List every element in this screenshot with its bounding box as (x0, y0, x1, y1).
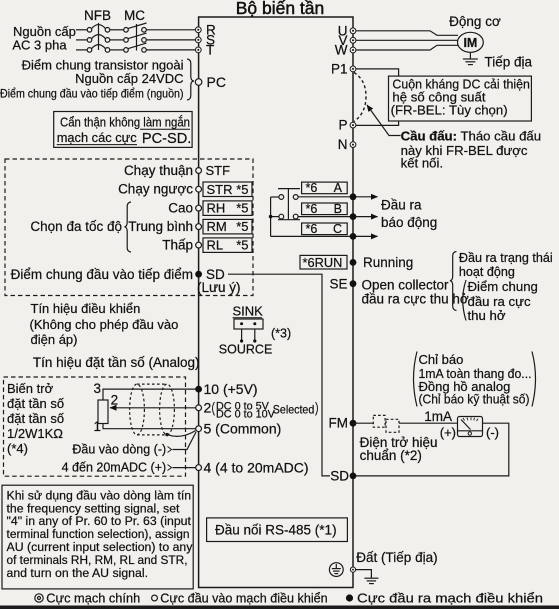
node B (350, 213, 357, 220)
legend: control output terminal (346, 594, 353, 601)
svg-text:PC: PC (207, 74, 226, 90)
jumper leader arrow (367, 105, 401, 136)
svg-text:Tín hiệu đặt tần số (Analog): Tín hiệu đặt tần số (Analog) (33, 355, 200, 370)
svg-text:1mA: 1mA (424, 409, 452, 424)
terminal W (350, 47, 356, 53)
svg-text:SINK: SINK (233, 304, 264, 319)
svg-text:Trung bình: Trung bình (128, 219, 193, 234)
svg-text:Điểm chung đầu vào tiếp điểm (: Điểm chung đầu vào tiếp điểm (nguồn) (0, 86, 184, 100)
svg-text:kết nối.: kết nối. (401, 156, 444, 171)
svg-text:SE: SE (329, 277, 347, 292)
relay changeover contact (271, 189, 300, 237)
svg-text:4 đến 20mADC (+): 4 đến 20mADC (+) (62, 461, 167, 475)
node RUN (350, 259, 357, 266)
box RS-485 (207, 518, 348, 542)
svg-text:the frequency setting signal,: the frequency setting signal, set (7, 501, 181, 515)
terminal PC (195, 79, 202, 86)
svg-text:Cực đầu vào mạch điều khiển: Cực đầu vào mạch điều khiển (160, 592, 327, 606)
svg-text:mạch các cực: mạch các cực (57, 130, 137, 145)
calibration resistor (dashed) (373, 415, 385, 427)
wire pot wiper from terminal 2 (110, 407, 196, 409)
svg-text:*6: *6 (306, 202, 318, 216)
legend: main circuit terminal (35, 594, 43, 602)
terminal RL (196, 242, 202, 248)
svg-text:B: B (334, 202, 342, 216)
wire phase R (76, 29, 196, 31)
svg-text:(Lưu ý): (Lưu ý) (197, 280, 241, 295)
ground under motor (463, 52, 478, 64)
svg-text:*5: *5 (236, 201, 248, 216)
svg-text:*6: *6 (306, 181, 318, 195)
inverter enclosure outline (199, 17, 353, 588)
svg-text:Tín hiệu điều khiển: Tín hiệu điều khiển (31, 301, 141, 316)
svg-text:FM: FM (329, 416, 349, 431)
svg-text:T: T (206, 42, 214, 57)
svg-text:STF: STF (206, 163, 231, 178)
wire contact to A (298, 196, 353, 198)
svg-text:*5: *5 (236, 182, 248, 197)
svg-text:Động cơ: Động cơ (449, 14, 501, 29)
terminal B box (302, 203, 348, 215)
svg-text:(FR-BEL: Tùy chọn): (FR-BEL: Tùy chọn) (391, 103, 508, 118)
svg-text:báo động: báo động (381, 215, 437, 230)
terminal ground on rail (350, 567, 355, 572)
svg-text:đầu ra cực: đầu ra cực (468, 294, 531, 309)
svg-text:N: N (338, 137, 348, 152)
svg-text:Bộ biến tần: Bộ biến tần (236, 0, 325, 18)
svg-text:SD: SD (330, 469, 349, 484)
svg-text:STR: STR (207, 182, 233, 197)
wire contact to B (298, 216, 353, 218)
box DC reactor FR-BEL (389, 76, 532, 121)
terminal U (350, 28, 356, 34)
svg-text:*6: *6 (306, 222, 318, 236)
svg-text:Cẩn thận không làm ngắn: Cẩn thận không làm ngắn (60, 115, 190, 130)
svg-text:thu hở: thu hở (468, 308, 506, 323)
ground (364, 578, 378, 583)
paren open-collector common (463, 280, 466, 321)
shielded cable (130, 384, 175, 435)
svg-text:IM: IM (463, 36, 477, 50)
svg-text:Chạy thuận: Chạy thuận (124, 163, 193, 178)
terminal N (350, 142, 356, 148)
svg-text:Đầu ra: Đầu ra (381, 198, 422, 213)
svg-text:MC: MC (124, 8, 145, 23)
terminal STR (196, 186, 202, 192)
wire common to C (271, 235, 353, 237)
svg-text:*6RUN: *6RUN (303, 255, 343, 270)
terminal R (195, 27, 201, 33)
svg-text:Đầu vào dòng (-): Đầu vào dòng (-) (72, 443, 166, 457)
caution box PC-SD (54, 112, 192, 148)
svg-text:Chọn đa tốc độ: Chọn đa tốc độ (30, 219, 122, 234)
note box: English text (2, 485, 193, 589)
arrow A output (356, 196, 378, 198)
svg-text:Chạy ngược: Chạy ngược (118, 182, 193, 197)
svg-text:2: 2 (204, 400, 212, 416)
wire U to motor (356, 31, 458, 36)
svg-text:Biến trở: Biến trở (7, 381, 54, 396)
contactor MC (124, 23, 147, 52)
legend: control input terminal (152, 595, 158, 601)
bottom scan bar (0, 606, 559, 609)
svg-text:Cực mạch chính: Cực mạch chính (46, 591, 140, 606)
wire SD to right rail (228, 274, 330, 476)
svg-text:terminal function selection),: terminal function selection), assign (7, 527, 190, 541)
wire V to motor (356, 39, 458, 41)
terminal S (195, 37, 201, 43)
svg-text:Thấp: Thấp (162, 238, 193, 253)
svg-text:2: 2 (111, 393, 119, 408)
svg-text:P1: P1 (331, 61, 348, 76)
svg-text:Running: Running (363, 255, 413, 270)
shield drain wire (165, 433, 168, 436)
terminal P (350, 122, 356, 128)
wire P1 to P (via DC reactor path) (356, 69, 399, 126)
terminal RM (196, 224, 202, 230)
svg-text:and turn on the AU signal.: and turn on the AU signal. (7, 566, 149, 580)
terminal STF (196, 168, 202, 174)
svg-text:(*3): (*3) (271, 327, 291, 341)
svg-text:Chỉ báo: Chỉ báo (419, 352, 464, 367)
svg-text:Đầu nối RS-485 (*1): Đầu nối RS-485 (*1) (215, 522, 337, 537)
wire phase T (76, 49, 196, 51)
svg-text:Đất (Tiếp địa): Đất (Tiếp địa) (356, 550, 437, 565)
callout indicator meter (414, 352, 418, 407)
junction (269, 215, 273, 219)
svg-text:Điểm chung: Điểm chung (468, 279, 538, 294)
svg-text:RM: RM (207, 219, 227, 234)
svg-text:4 (4 to 20mADC): 4 (4 to 20mADC) (204, 459, 309, 475)
terminal 10 (195, 386, 202, 393)
svg-text:P: P (338, 118, 347, 133)
svg-text:10 (+5V): 10 (+5V) (204, 381, 258, 397)
terminal V (350, 37, 356, 43)
svg-text:Khi sử dụng đầu vào dòng làm t: Khi sử dụng đầu vào dòng làm tín (7, 488, 192, 502)
svg-text:of terminals RH, RM, RL and ST: of terminals RH, RM, RL and STR, (7, 553, 188, 567)
svg-text:(+): (+) (440, 425, 456, 440)
svg-text:Điểm chung đầu vào tiếp điểm: Điểm chung đầu vào tiếp điểm (11, 267, 193, 282)
brace to PC (187, 59, 194, 100)
terminal SD (dot) (195, 271, 202, 278)
arrow C output (356, 235, 378, 237)
svg-text:NFB: NFB (84, 8, 111, 23)
svg-text:1: 1 (94, 419, 102, 434)
svg-text:A: A (334, 181, 343, 195)
jumper (dashed) P1-P (354, 73, 366, 122)
svg-text:*5: *5 (236, 219, 248, 234)
terminal RH (196, 205, 202, 211)
svg-text:*5: *5 (236, 238, 248, 253)
brace status outputs (450, 252, 457, 311)
wire pot pin3 to terminal 10 (103, 389, 195, 400)
dashed box: analog input (4, 377, 186, 476)
svg-text:W: W (335, 43, 348, 58)
svg-text:chuẩn (*2): chuẩn (*2) (360, 448, 422, 463)
svg-text:đặt tần số: đặt tần số (7, 411, 64, 426)
terminal A box (302, 182, 348, 194)
svg-text:(Không cho phép đầu vào: (Không cho phép đầu vào (30, 317, 179, 332)
node C (350, 233, 357, 240)
terminal P1 (350, 66, 356, 72)
svg-text:3: 3 (94, 381, 102, 396)
svg-text:5 (Common): 5 (Common) (204, 421, 282, 437)
svg-text:Đầu ra trạng thái: Đầu ra trạng thái (459, 251, 553, 265)
wire FM to meter (353, 422, 458, 424)
svg-text:PC-SD.: PC-SD. (142, 131, 191, 147)
wire meter return to SD (356, 423, 509, 476)
svg-text:Cực đầu ra mạch điều khiển: Cực đầu ra mạch điều khiển (357, 591, 543, 606)
svg-text:(*4): (*4) (7, 441, 28, 456)
svg-text:Selected: Selected (273, 402, 315, 416)
svg-text:Cao: Cao (168, 201, 193, 216)
svg-text:1/2W1KΩ: 1/2W1KΩ (7, 426, 63, 441)
svg-text:(Chỉ báo kỹ thuật số): (Chỉ báo kỹ thuật số) (419, 392, 530, 407)
dashed box: contact input signals (5, 159, 253, 296)
terminal RUN box (300, 255, 347, 269)
PE symbol (329, 563, 343, 577)
svg-text:đặt tần số: đặt tần số (7, 396, 64, 411)
meter (458, 417, 483, 437)
svg-text:RL: RL (207, 238, 224, 253)
svg-text:Cầu đấu: Tháo cầu đấu: Cầu đấu: Tháo cầu đấu (401, 129, 541, 144)
svg-text:DC 0 to 10V: DC 0 to 10V (216, 409, 276, 421)
terminal 5 (196, 426, 202, 432)
svg-text:Tiếp địa: Tiếp địa (485, 55, 533, 70)
terminal 4 (196, 465, 202, 471)
breaker NFB (87, 23, 110, 52)
terminal C box (302, 223, 348, 235)
terminal 2 (196, 405, 202, 411)
svg-text:C: C (333, 222, 342, 236)
svg-text:hoạt động: hoạt động (459, 265, 515, 279)
potentiometer symbol (98, 400, 108, 424)
node A (350, 193, 357, 200)
svg-text:"4" in any of Pr. 60 to Pr. 63: "4" in any of Pr. 60 to Pr. 63 (input (7, 514, 192, 528)
terminal T (195, 47, 201, 53)
svg-text:SOURCE: SOURCE (219, 342, 272, 356)
svg-text:điện áp): điện áp) (31, 332, 78, 347)
svg-text:AC 3 pha: AC 3 pha (12, 37, 67, 52)
svg-text:AU (current input selection) t: AU (current input selection) to any (7, 540, 194, 554)
svg-text:RH: RH (207, 201, 226, 216)
svg-text:Open collector: Open collector (362, 277, 450, 292)
arrow B output (356, 216, 378, 218)
motor IM (458, 32, 484, 52)
svg-text:Nguồn cấp 24VDC: Nguồn cấp 24VDC (75, 71, 183, 86)
wire pot pin1 to terminal 5 (103, 424, 196, 429)
svg-text:(-): (-) (486, 425, 499, 440)
wire W to motor (356, 45, 458, 50)
wire to ground (356, 570, 372, 579)
wire phase S (76, 39, 196, 41)
